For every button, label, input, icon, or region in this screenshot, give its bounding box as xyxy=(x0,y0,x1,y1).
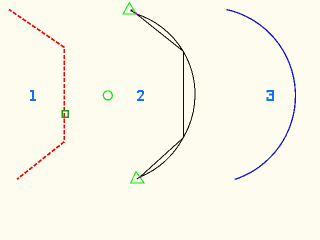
endpoint dot near top arrowhead xyxy=(131,10,133,12)
center point circle (green) xyxy=(103,91,112,100)
label 3 xyxy=(267,90,274,101)
blue arc 3 xyxy=(226,10,295,180)
arrowhead triangle top (green) xyxy=(123,3,136,14)
arrowhead triangle bottom (green) xyxy=(131,172,144,183)
black original polyline (straight frame) xyxy=(137,14,184,177)
polyline 1 (red dashed chevron) xyxy=(9,10,64,180)
label 1 xyxy=(30,90,36,101)
label 2 xyxy=(137,90,144,101)
grip square on polyline 1 xyxy=(62,111,68,117)
magenta point marker top xyxy=(135,13,137,15)
black connector stub from endpoint vertex to merge point (top) xyxy=(132,11,140,179)
black fit curve (three tangent arcs through the same vertices) xyxy=(137,14,196,177)
magenta point marker bottom xyxy=(140,176,142,178)
